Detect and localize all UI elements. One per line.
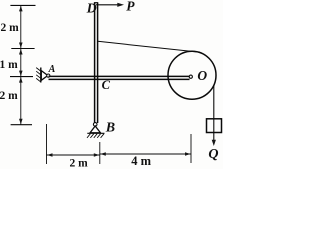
bottom extension line middle (below B) <box>99 142 101 164</box>
svg-text:C: C <box>102 78 111 92</box>
pin circle at B <box>93 123 97 127</box>
svg-text:D: D <box>86 1 97 16</box>
svg-text:2 m: 2 m <box>1 22 20 34</box>
svg-text:Q: Q <box>208 147 218 162</box>
left dimension vertical line <box>20 5 22 124</box>
svg-text:2 m: 2 m <box>70 158 89 169</box>
pin circle at A <box>47 74 50 77</box>
svg-text:1 m: 1 m <box>0 59 18 71</box>
rope through weight box <box>213 119 215 133</box>
left dimension tick bottom <box>11 124 32 126</box>
pulley circle <box>168 51 216 99</box>
svg-text:A: A <box>48 64 56 75</box>
bottom dimension line 4m <box>100 153 191 155</box>
svg-text:B: B <box>105 120 115 135</box>
rope from bar to pulley top <box>98 41 200 52</box>
vertical member D-B (double line) <box>94 3 98 123</box>
weight box <box>207 119 222 133</box>
svg-text:O: O <box>197 68 207 83</box>
svg-text:4 m: 4 m <box>131 154 151 168</box>
pin circle at O (member end) <box>189 75 192 78</box>
bottom extension line left (below A) <box>46 124 48 164</box>
left dimension tick 2 <box>11 48 34 50</box>
horizontal member A-O (double line) <box>49 76 190 79</box>
left dimension tick top <box>10 4 35 6</box>
wall at A <box>36 68 41 83</box>
bottom dimension line 2m <box>47 154 100 156</box>
rope down right side of pulley <box>213 85 215 119</box>
pin support triangle at B <box>90 126 101 133</box>
force Q arrow <box>212 133 216 147</box>
left dimension arrowheads <box>19 6 23 124</box>
force P arrow <box>96 3 124 7</box>
svg-text:2 m: 2 m <box>0 90 18 102</box>
ground hatching at B <box>87 134 104 138</box>
bottom extension line right (below O) <box>190 134 192 163</box>
pin support triangle at A <box>41 71 48 81</box>
left dimension tick 3 <box>10 76 33 78</box>
ground line at B <box>87 132 104 134</box>
svg-text:P: P <box>126 0 135 14</box>
bottom dimension arrowheads <box>47 152 191 157</box>
